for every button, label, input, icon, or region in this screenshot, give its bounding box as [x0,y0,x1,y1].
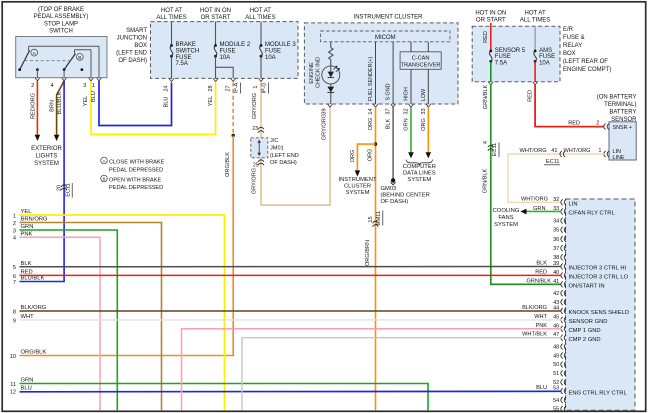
svg-text:ON/START IN: ON/START IN [569,284,605,290]
left connector pin 10 ORG/BLK [10,350,47,360]
svg-text:OPEN WITH BRAKE: OPEN WITH BRAKE [109,177,161,183]
svg-text:FUSE: FUSE [220,48,236,54]
svg-text:ORG/BLK: ORG/BLK [225,152,231,177]
svg-text:EC11: EC11 [65,183,71,197]
svg-text:PEDAL DEPRESSED: PEDAL DEPRESSED [109,167,163,173]
svg-text:ORG: ORG [368,118,374,131]
svg-text:A: A [103,159,106,164]
svg-text:ENGINE: ENGINE [309,62,315,84]
ECM pin 47 [553,332,601,343]
connector EC11 on WHT/ORG wire [544,151,565,165]
svg-text:14: 14 [368,108,374,114]
svg-text:37: 37 [386,108,392,114]
svg-text:WHT: WHT [534,314,547,320]
svg-text:CHECK IND: CHECK IND [316,57,322,88]
ECM pin 37 [553,245,566,252]
svg-text:CLOSE WITH BRAKE: CLOSE WITH BRAKE [109,160,165,166]
svg-text:51: 51 [553,371,559,377]
ECM pin 46 [553,323,601,334]
svg-text:SYSTEM: SYSTEM [407,177,431,183]
wire BLU switch pin 1 to SJB fuse 24 [91,81,172,126]
svg-text:BOX: BOX [134,43,147,49]
svg-text:10: 10 [10,354,16,360]
svg-text:(LEFT END: (LEFT END [270,153,299,159]
svg-text:SWITCH: SWITCH [49,29,73,35]
svg-text:INSTRUMENT: INSTRUMENT [339,177,377,183]
svg-text:4: 4 [483,141,489,144]
ground GM03 [381,178,430,205]
wire ORG 14 fuel sender down to EM11 and bottom [368,107,376,410]
connector EC11 pin 20 on BLU/BLK wire [57,183,72,198]
svg-text:20: 20 [57,185,63,191]
svg-text:SENSOR 5: SENSOR 5 [495,48,526,54]
svg-text:BRAKE: BRAKE [176,42,196,48]
svg-text:HOT AT: HOT AT [250,8,271,14]
svg-text:EC11: EC11 [546,159,560,165]
svg-text:15: 15 [368,216,374,222]
svg-text:FUSE: FUSE [176,55,192,61]
wire YEL pin 1 down to bottom [20,215,225,410]
wire GRN pin 11 down to bottom at right [20,384,429,411]
ECM pin 39 [553,261,626,272]
switch mechanical link (dashed) [25,60,74,62]
svg-text:BATTERY: BATTERY [609,109,636,115]
svg-text:HIGH: HIGH [404,87,410,101]
svg-text:B: B [78,55,81,60]
svg-text:BLU: BLU [164,97,170,108]
svg-text:41: 41 [553,279,559,285]
smart junction box body [151,22,299,79]
svg-text:GRN/BLK: GRN/BLK [526,278,551,284]
svg-text:GRY/ORG: GRY/ORG [252,93,258,119]
ECM pin 33 [553,206,615,217]
svg-text:HOT IN ON: HOT IN ON [475,10,506,16]
ECM pin 51 [553,370,566,377]
brake switch fuse 7.5A [170,22,199,79]
wire GRN/BLK from sensor 5 fuse to ECM pin 41 [483,84,562,284]
svg-text:INJECTOR 3 CTRL HI: INJECTOR 3 CTRL HI [569,266,627,272]
svg-text:OF DASH): OF DASH) [270,160,297,166]
svg-text:WHT/ORG: WHT/ORG [521,196,548,202]
left connector pin 12 BLU [10,386,32,396]
svg-text:7.5A: 7.5A [495,61,507,67]
svg-text:BLK: BLK [386,118,392,129]
wire BLU/BLK from switch pin 4 down to left pin 7 [20,81,65,282]
wire WHT/ORG battery sensor LIN to ECM pin 32 [508,148,604,203]
connector EM11 pin 15 on ORG wire [365,211,383,267]
svg-text:CMP 2 GND: CMP 2 GND [569,337,601,343]
svg-text:INSTRUMENT CLUSTER: INSTRUMENT CLUSTER [354,15,424,21]
svg-text:TERMINAL): TERMINAL) [604,102,636,108]
svg-text:34: 34 [553,218,559,224]
svg-text:B: B [103,177,106,182]
wire GRY/ORG from SJB fuse 1 through JM01 to cluster 39 [252,83,264,138]
svg-text:1: 1 [253,85,259,88]
svg-text:INJECTOR 3 CTRL LO: INJECTOR 3 CTRL LO [569,275,629,281]
wire ORG branch to instrument cluster system [350,144,376,177]
svg-text:COMPUTER: COMPUTER [403,164,436,170]
svg-text:GRN: GRN [404,118,410,130]
svg-text:BLK/ORG: BLK/ORG [522,305,547,311]
module 3 fuse 10A [260,22,297,79]
svg-text:S GND: S GND [386,83,392,100]
left connector pin 2 BRN/ORG [13,217,48,227]
svg-text:(ON BATTERY: (ON BATTERY [597,95,637,101]
wire RED from AMS fuse to battery sensor pin 2 [527,84,604,127]
svg-text:ALL TIMES: ALL TIMES [156,15,186,21]
labels near ECM pins 39 40 [535,261,547,276]
svg-text:LOW: LOW [421,88,427,101]
left connector pin 8 BLK/ORG [13,305,47,315]
instrument cluster body [304,23,458,104]
svg-text:EM11: EM11 [376,211,382,225]
left connector pin 9 WHT [13,314,34,324]
ECM pin 54 [553,397,566,404]
svg-text:WHT/ORG: WHT/ORG [520,148,547,154]
wire YEL switch pin 3 to SJB brake switch fuse 28 [83,81,216,135]
cluster internal wires: fuel sender, s gnd [368,42,393,104]
wire ORG/BLK from SJB fuse 27 down and left to pin 10 [20,83,235,356]
svg-text:1: 1 [13,213,16,219]
svg-text:BLU: BLU [536,385,547,391]
wire BRN from switch pin 4 to exterior lights [50,81,65,141]
svg-text:SYSTEM: SYSTEM [494,222,518,228]
svg-text:MODULE 3: MODULE 3 [265,42,296,48]
engine check ind: diode [327,84,334,104]
svg-text:CLUSTER: CLUSTER [344,184,371,190]
svg-text:WHT/BLK: WHT/BLK [522,332,547,338]
svg-text:BRN: BRN [50,100,56,112]
left connector pin 7 BLU/BLK [13,276,45,286]
hot in on or start (sensor 5 fuse) [475,10,506,23]
battery sensor label [597,95,637,123]
svg-text:48: 48 [553,344,559,350]
wire BLK 37 to ground GM03 [386,107,393,180]
module 2 fuse 10A [214,22,251,79]
svg-text:JM01: JM01 [270,145,284,151]
svg-text:J/C: J/C [270,138,278,144]
stop lamp switch SW1 body [16,37,107,78]
svg-text:BLU: BLU [91,91,97,102]
svg-text:32: 32 [553,197,559,203]
ECM pin 34 [553,218,566,225]
svg-text:SNSR +: SNSR + [613,125,633,131]
svg-text:1: 1 [92,83,95,89]
E/R box label [563,27,611,73]
svg-text:ENGINE COMPT): ENGINE COMPT) [563,67,611,73]
svg-text:ORG: ORG [350,150,356,163]
svg-text:TRANSCEIVER: TRANSCEIVER [401,62,441,68]
svg-text:HOT IN ON: HOT IN ON [200,8,231,14]
svg-text:(LEFT END: (LEFT END [116,51,148,57]
ECM pin 55 [553,406,566,413]
svg-text:HOT AT: HOT AT [161,8,182,14]
svg-text:BLU/BLK: BLU/BLK [57,91,63,114]
svg-text:JUNCTION: JUNCTION [117,36,147,42]
junction dot on ORG wire [374,142,377,145]
ECM pin 32 [553,197,577,208]
switch blade A [20,49,38,69]
junction connector J/C JM01 [251,138,299,166]
wire WHT pin 9 to ECM pin 45 [20,314,562,320]
left connector pin 4 PNK [13,231,33,241]
svg-text:GRY/ORG: GRY/ORG [322,114,328,140]
svg-text:LIN: LIN [569,202,578,208]
svg-text:RED: RED [535,269,547,275]
ECM pin 38 [553,254,566,261]
label IP-A [234,82,241,93]
C-CAN transceiver U2 [400,42,441,104]
svg-text:COOLING: COOLING [493,208,520,214]
svg-text:LIN: LIN [613,149,621,155]
ECM pin 36 [553,236,566,243]
left connector pin 1 YEL [13,209,32,219]
wire BRN/ORG pin 2 down to bottom [20,223,162,411]
svg-text:FUSE &: FUSE & [563,35,585,41]
svg-text:FUSE: FUSE [495,54,511,60]
left connector pin 6 RED [13,270,33,280]
svg-text:11: 11 [10,382,16,388]
svg-text:33: 33 [421,108,427,114]
svg-text:SYSTEM: SYSTEM [34,161,59,167]
svg-text:RED: RED [483,31,489,43]
svg-text:GRN/BLK: GRN/BLK [483,84,489,109]
svg-text:50: 50 [553,362,559,368]
switch contacts [18,68,83,78]
svg-text:39: 39 [322,108,328,114]
svg-text:IP-G: IP-G [262,82,268,93]
note B open with brake pedal depressed [101,175,164,191]
wire GRN 33 to cooling fans system [520,206,561,214]
ECM pin 45 [553,314,607,325]
AMS fuse 10A [534,26,555,81]
connector EC11 pin 4 on GRN/BLK wire [483,141,499,157]
svg-text:PEDAL ASSEMBLY): PEDAL ASSEMBLY) [34,14,89,20]
svg-text:CMP 1 GND: CMP 1 GND [569,328,601,334]
svg-text:E/R: E/R [563,27,574,33]
svg-text:(TOP OF BRAKE: (TOP OF BRAKE [38,7,84,13]
svg-text:IP-A: IP-A [234,82,240,93]
svg-text:ORG/BLK: ORG/BLK [21,350,47,356]
svg-text:YEL: YEL [208,96,214,107]
left connector pin 3 GRN [13,224,34,234]
hot at all times (module 3 fuse) [245,8,275,21]
wire GRN pin 3 down to bottom [20,230,118,410]
smart junction box label [116,28,148,64]
svg-text:24: 24 [164,85,170,91]
MICOM block [321,31,450,42]
svg-text:FUSE: FUSE [539,54,555,60]
wire PNK riser to ECM pin 46 [182,323,562,410]
svg-text:9: 9 [13,318,16,324]
ECM pin 43 [553,299,566,306]
wire GRY/ORG below JM01 to riser 39 [251,107,330,205]
svg-text:5: 5 [13,265,16,271]
svg-text:C-CAN: C-CAN [412,56,430,62]
svg-text:STOP LAMP: STOP LAMP [44,21,78,27]
switch pin numbers 2 4 3 1 [31,83,95,89]
E/R box exits [488,82,537,85]
svg-text:4: 4 [13,236,16,242]
note A close with brake pedal depressed [101,157,165,173]
ECM connector body [566,199,636,410]
svg-text:23: 23 [252,126,258,132]
svg-text:4: 4 [50,83,53,89]
engine check ind: lamp LED [322,66,340,84]
ECM pin 52 [553,379,566,386]
svg-text:OF DASH): OF DASH) [118,58,147,64]
svg-text:8: 8 [13,309,16,315]
svg-text:37: 37 [553,246,559,252]
svg-text:EXTERIOR: EXTERIOR [31,146,62,152]
svg-text:6: 6 [13,274,16,280]
svg-text:ORG: ORG [421,118,427,131]
svg-text:LIGHTS: LIGHTS [36,153,58,159]
svg-text:BLU: BLU [21,386,32,392]
svg-text:FANS: FANS [498,215,513,221]
exterior lights system label [31,146,62,167]
svg-text:ENG CTRL RLY CTRL: ENG CTRL RLY CTRL [569,390,628,396]
svg-text:SMART: SMART [126,28,147,34]
ECM pin 40 [553,270,629,281]
svg-text:12: 12 [10,390,16,396]
svg-text:32: 32 [404,108,410,114]
hot at all times (ams fuse) [520,10,550,23]
svg-text:BLU/BLK: BLU/BLK [21,276,45,282]
svg-text:10A: 10A [265,55,276,61]
svg-text:RED: RED [568,121,580,127]
svg-text:FUEL SENDER(+): FUEL SENDER(+) [368,57,374,101]
cluster exits [328,104,431,107]
svg-text:OR START: OR START [476,18,506,24]
svg-text:10A: 10A [220,55,231,61]
wire RED pin 6 to ECM pin 40 [20,274,562,276]
svg-text:GRY/ORG: GRY/ORG [251,168,257,194]
svg-text:SWITCH: SWITCH [176,48,200,54]
svg-text:FUSE: FUSE [265,48,281,54]
ECM pin 49 [553,353,566,360]
svg-text:LINE: LINE [613,155,625,161]
svg-text:KNOCK SENS SHIELD: KNOCK SENS SHIELD [569,310,630,316]
svg-text:2: 2 [31,83,34,89]
stop lamp switch title [34,7,89,35]
ECM pin 42 [553,290,566,297]
svg-text:(BEHIND CENTER: (BEHIND CENTER [381,193,430,199]
ECM pin 50 [553,361,566,368]
svg-text:ALL TIMES: ALL TIMES [245,15,275,21]
computer data lines system label [403,164,436,183]
ECM pin 48 [553,344,566,351]
svg-text:7: 7 [13,280,16,286]
wire WHT/BLK riser to ECM pin 47 [242,332,562,411]
svg-text:AMS: AMS [539,48,552,54]
brace under data line arrows [406,160,433,166]
battery sensor pin SNSR+ [604,124,632,132]
svg-text:GRN/BLK: GRN/BLK [483,168,489,193]
svg-text:55: 55 [553,407,559,413]
wire PNK pin 4 down to bottom [20,237,101,410]
svg-text:41: 41 [551,148,557,154]
svg-text:3: 3 [83,83,86,89]
sensor 5 fuse 7.5A [483,23,526,82]
svg-text:EC11: EC11 [492,143,498,157]
svg-text:PEDAL DEPRESSED: PEDAL DEPRESSED [109,185,163,191]
wire ORG 33 to computer data lines [421,107,431,158]
svg-text:7.5A: 7.5A [176,61,188,67]
svg-text:28: 28 [208,85,214,91]
svg-text:WHT/ORG: WHT/ORG [563,148,590,154]
wire BLU pin 12 to ECM pin 53 [20,385,562,392]
ECM pin 35 [553,227,566,234]
svg-text:ORG: ORG [368,149,374,162]
svg-text:1: 1 [598,148,601,154]
left connector pin 5 BLK [13,261,32,271]
svg-text:DATA LINES: DATA LINES [403,170,436,176]
svg-text:HOT AT: HOT AT [525,10,546,16]
svg-text:MODULE 2: MODULE 2 [220,42,251,48]
E/R fuse and relay box body [472,26,560,81]
svg-text:GM03: GM03 [381,186,397,192]
svg-text:2: 2 [13,221,16,227]
svg-text:10A: 10A [539,61,550,67]
svg-text:42: 42 [553,291,559,297]
svg-text:35: 35 [553,228,559,234]
svg-text:RED: RED [527,90,533,102]
svg-text:YEL: YEL [83,96,89,107]
ECM pin 41 [553,279,605,290]
svg-text:MICOM: MICOM [375,35,396,41]
svg-text:(LEFT REAR OF: (LEFT REAR OF [563,59,608,65]
label IP-G [262,82,269,93]
svg-text:GRN: GRN [533,206,545,212]
svg-text:ORG/BRN: ORG/BRN [365,240,371,266]
svg-text:ALL TIMES: ALL TIMES [520,18,550,24]
SJB exits [169,78,263,81]
wire BLK pin 5 to ECM pin 39 [20,266,562,268]
svg-text:25: 25 [253,163,259,169]
svg-text:BOX: BOX [563,51,576,57]
svg-text:3: 3 [13,228,16,234]
svg-text:OF DASH): OF DASH) [381,199,409,205]
svg-text:49: 49 [553,353,559,359]
svg-text:BLK: BLK [536,261,547,267]
svg-text:54: 54 [553,398,559,404]
svg-text:PNK: PNK [535,323,547,329]
battery sensor body [609,122,636,160]
svg-text:27: 27 [225,85,231,91]
instrument cluster system label [339,177,377,196]
svg-text:2: 2 [596,121,599,127]
svg-text:C/FAN RLY CTRL: C/FAN RLY CTRL [569,211,616,217]
svg-text:SENSOR GND: SENSOR GND [569,319,608,325]
battery sensor pin LIN LINE [604,149,625,161]
svg-text:RED/ORG: RED/ORG [30,93,36,119]
switch blade B [64,54,83,70]
left connector pin 11 GRN [10,378,33,388]
cooling fans system label [493,208,520,228]
svg-text:SYSTEM: SYSTEM [346,190,370,196]
hot at all times (brake switch fuse) [156,8,186,21]
wire GRN 32 to computer data lines [404,107,414,158]
svg-text:RELAY: RELAY [563,43,582,49]
engine check ind: resistor [309,42,333,88]
wire BLK/ORG pin 8 to ECM pin 44 [20,305,562,311]
svg-text:OR START: OR START [201,15,231,21]
switch pin exits [35,78,101,81]
ECM pin 53 [553,386,627,397]
wire RED/ORG from switch pin 2 to exterior lights [30,81,40,141]
ECM pin 44 [553,306,629,317]
